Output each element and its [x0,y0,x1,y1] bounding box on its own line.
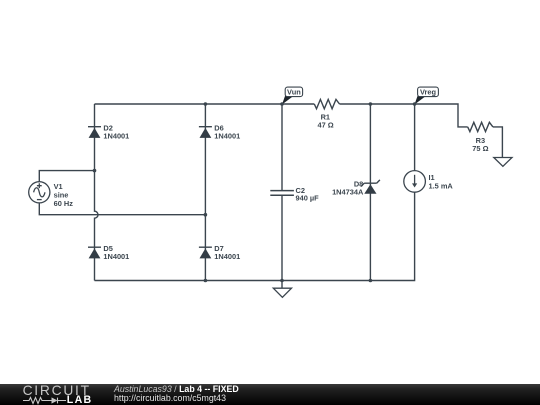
svg-text:47 Ω: 47 Ω [317,121,333,130]
label D2 value [103,124,129,141]
wire V1 top to left vertical [39,171,94,182]
diode D5 [88,247,101,258]
svg-text:75 Ω: 75 Ω [472,144,488,153]
ground (R3) [494,158,512,167]
wire I1 top [414,104,416,171]
footer title line [114,385,239,402]
footer bar [0,384,540,405]
zener diode D8 [361,180,380,194]
label D5 value [103,244,129,261]
svg-text:1.5 mA: 1.5 mA [429,181,454,190]
wire bridge right vertical [204,104,206,281]
logo LAB text [67,397,93,405]
wire R3 to ground [493,127,503,158]
node flag Vreg [415,87,439,104]
wire left vertical with hop over mid wire [95,104,99,281]
resistor R3 [468,122,493,131]
wire D8 branch [369,104,371,281]
svg-text:60 Hz: 60 Hz [54,199,74,208]
ground (bottom rail) [273,288,291,297]
diode D6 [199,127,212,138]
label D7 value [214,244,240,261]
svg-text:1N4001: 1N4001 [103,252,129,261]
wire V1 bottom to bridge mid [39,203,205,215]
wire ground stub [281,281,283,289]
svg-text:Vun: Vun [287,87,301,96]
node flag Vun [282,87,303,104]
logo CIRCUIT text [23,384,103,397]
svg-text:1N4001: 1N4001 [214,132,240,141]
label D8 value [332,180,364,197]
wire bottom rail [95,192,415,280]
current source I1 [404,171,426,193]
wire C2 branch [281,104,283,281]
logo schematic row [20,394,72,405]
label R1 value [317,113,333,130]
svg-text:1N4001: 1N4001 [214,252,240,261]
wire top rail left (bridge top to R1) [95,103,315,105]
label D6 value [214,124,240,141]
diode D2 [88,127,101,138]
label V1 value [54,182,74,208]
capacitor C2 [270,191,294,196]
resistor R1 [314,99,339,108]
svg-text:1N4001: 1N4001 [103,132,129,141]
svg-text:1N4734A: 1N4734A [332,188,364,197]
svg-text:Vreg: Vreg [420,87,437,96]
svg-text:940 µF: 940 µF [296,194,320,203]
label C2 value [296,186,320,203]
label R3 value [472,136,488,153]
label I1 value [429,173,454,190]
voltage source V1 [29,182,50,203]
wire top rail right (R1 to corner, down to R3 row) [340,104,468,127]
diode D7 [199,247,212,258]
